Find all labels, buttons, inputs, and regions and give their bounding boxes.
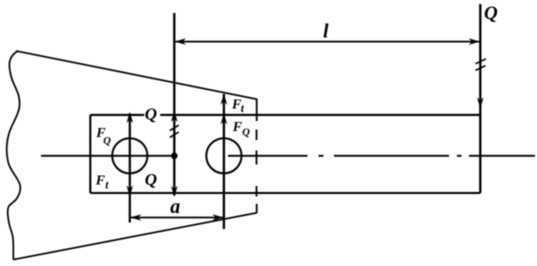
plate/bar bottom edge [90, 192, 480, 194]
dimension line l [175, 41, 479, 43]
bracket top taper line [16, 51, 257, 99]
main load line of action Q [173, 13, 175, 196]
svg-text:F: F [232, 120, 243, 135]
dimension line a [131, 217, 223, 219]
svg-text:Q: Q [484, 3, 498, 24]
arrowhead right, dim l [469, 38, 480, 45]
end load line Q (right, bar edge) [479, 4, 481, 193]
arrowhead left, dim a [130, 214, 141, 221]
plate/bar top edge (gap for Q label) [90, 114, 480, 116]
svg-text:Q: Q [145, 170, 157, 189]
right bolt force line [223, 94, 225, 229]
arrowhead up, right bolt line at taper (F_t) [221, 94, 228, 105]
svg-text:F: F [95, 174, 106, 189]
svg-text:Q: Q [103, 136, 111, 147]
horizontal centerline (axis) [41, 155, 535, 157]
svg-text:a: a [170, 196, 180, 218]
junction dot on main load line [171, 153, 178, 160]
arrowhead up, right bolt line at plate edge (F_Q) [221, 113, 228, 124]
arrowhead right, dim a [212, 214, 223, 221]
left bolt force line [129, 114, 131, 223]
break symbol on right load line [476, 59, 487, 71]
bracket right edge (solid below bar) [256, 204, 258, 213]
svg-text:l: l [323, 21, 329, 43]
arrowhead up, left bolt line [127, 112, 134, 123]
plate left edge [89, 115, 91, 193]
bracket right edge (solid above bar) [256, 99, 258, 121]
break symbol on main load line [170, 125, 179, 137]
bolt hole circle right [206, 138, 241, 173]
bracket right edge hidden (dashed behind bar) [256, 130, 258, 197]
arrowhead up, main load line at plate edge [171, 111, 178, 122]
bolt hole circle left [112, 138, 147, 173]
wavy break line (left edge of bracket) [7, 51, 21, 259]
svg-text:Q: Q [145, 105, 157, 124]
arrowhead down, right load line Q [477, 97, 484, 108]
arrowhead down, left bolt line [127, 185, 134, 196]
bracket bottom taper line [13, 213, 256, 260]
arrowhead down, main load line at bottom edge [171, 186, 178, 197]
svg-text:Q: Q [242, 128, 250, 139]
arrowhead left, dim l [175, 38, 186, 45]
